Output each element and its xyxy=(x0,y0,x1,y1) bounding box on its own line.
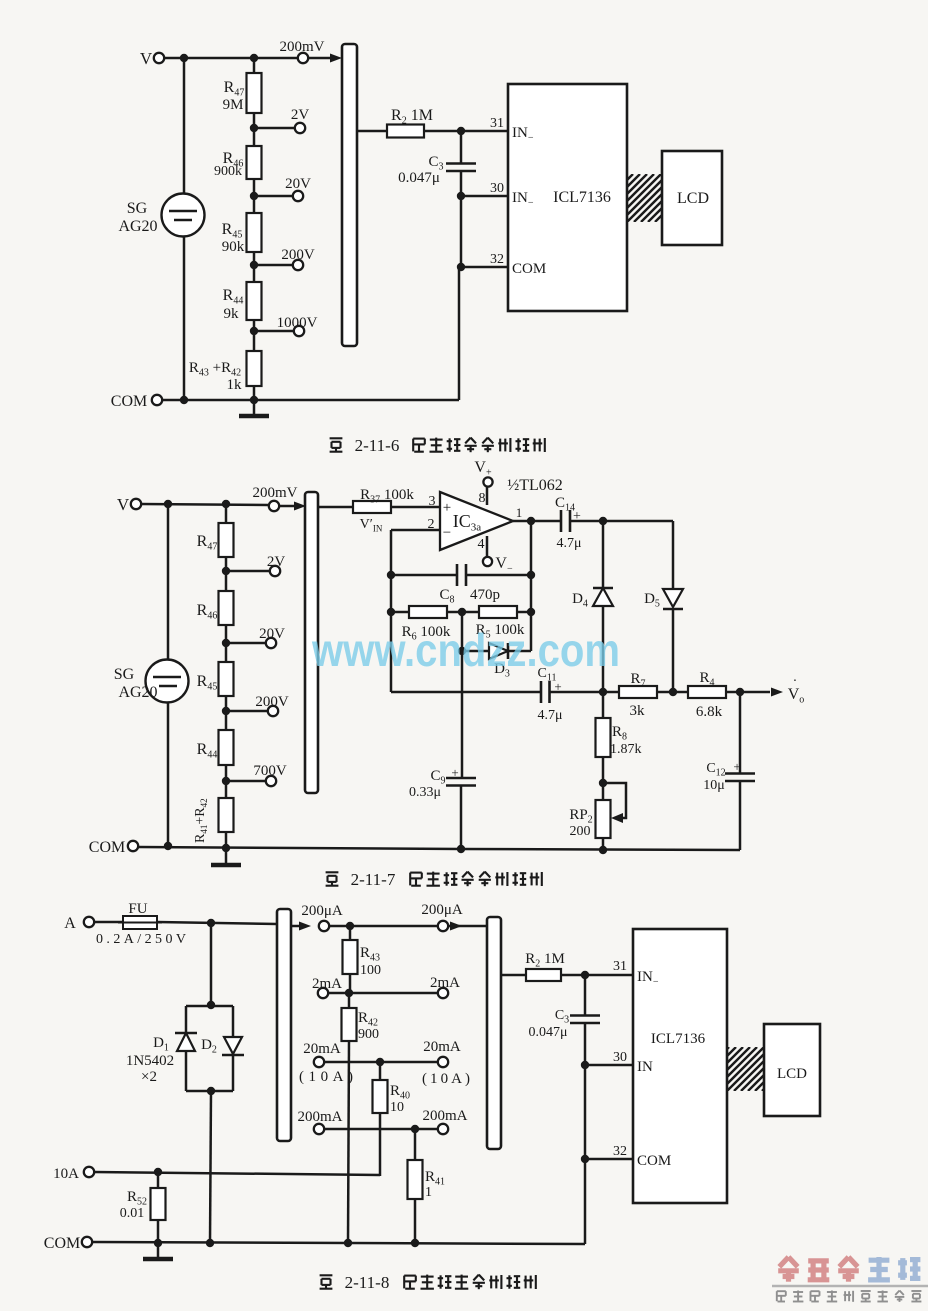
svg-text:8: 8 xyxy=(479,491,486,506)
wire 1000V tap xyxy=(254,330,294,333)
svg-text:+: + xyxy=(443,500,451,516)
junction D5 bottom xyxy=(669,688,677,696)
svg-text:90k: 90k xyxy=(222,239,245,255)
svg-text:200mA: 200mA xyxy=(423,1108,468,1124)
diode D4 branch xyxy=(602,521,605,588)
terminal 20V mid xyxy=(266,638,276,648)
junction RP2 bottom xyxy=(599,846,607,854)
ground middle circuit xyxy=(225,849,228,864)
terminal 20mA left xyxy=(314,1057,324,1067)
selector bar1 bottom circuit xyxy=(277,909,291,1141)
resistor R43 100 xyxy=(349,926,352,940)
svg-text:SG: SG xyxy=(127,200,148,217)
resistor R45 xyxy=(247,213,262,252)
terminal 2V mid xyxy=(270,566,280,576)
svg-text:2-11-7: 2-11-7 xyxy=(351,870,396,889)
lower rail to C11 xyxy=(391,691,541,694)
arrow Vo xyxy=(771,688,783,697)
junction R40 top xyxy=(376,1058,384,1066)
svg-text:+: + xyxy=(451,765,458,780)
junction R41 top xyxy=(411,1125,419,1133)
junction 200V tap xyxy=(250,261,258,269)
svg-text:R2 1M: R2 1M xyxy=(525,951,565,970)
svg-text:½TL062: ½TL062 xyxy=(507,477,563,494)
wire bar to R2 xyxy=(357,130,387,133)
svg-text:10A: 10A xyxy=(53,1166,79,1182)
arrow into selector xyxy=(330,54,342,63)
svg-text:LCD: LCD xyxy=(777,1066,807,1082)
wire COM rail bottom circuit xyxy=(92,1242,585,1244)
wire V to selector bar xyxy=(164,57,297,60)
wire V to bar middle xyxy=(141,504,269,505)
diode D3 branch xyxy=(461,612,464,651)
junction mid left rail xyxy=(164,500,172,508)
wire R2 to pin 31 xyxy=(424,130,508,133)
svg-text:200V: 200V xyxy=(281,247,315,263)
resistor R47 middle xyxy=(219,523,234,557)
svg-text:200V: 200V xyxy=(255,694,289,710)
wire R37 to op-amp pin3 xyxy=(391,506,440,509)
svg-text:AG20: AG20 xyxy=(118,684,157,701)
terminal 200mA right xyxy=(438,1124,448,1134)
wire right vertical output to D3 xyxy=(530,521,533,651)
junction pin 30 node xyxy=(457,192,465,200)
diode block bottom xyxy=(186,1090,233,1093)
junction top of divider chain xyxy=(250,54,258,62)
junction R8 top xyxy=(599,688,607,696)
svg-text:AG20: AG20 xyxy=(118,218,157,235)
svg-text:200: 200 xyxy=(570,824,591,839)
svg-text:1.87k: 1.87k xyxy=(610,742,642,757)
junction R42 bottom xyxy=(344,1239,352,1247)
junction diode branch bottom xyxy=(206,1239,214,1247)
LCD display bottom xyxy=(764,1024,820,1116)
terminal 20mA right xyxy=(438,1057,448,1067)
caption figure 2-11-6 xyxy=(330,437,343,439)
svg-text:0.047μ: 0.047μ xyxy=(398,170,440,186)
resistor R41+R42 middle xyxy=(219,798,234,832)
terminal 2mA left xyxy=(318,988,328,998)
junction output node xyxy=(527,517,535,525)
wire R2 to pin31 bottom xyxy=(561,974,633,977)
svg-text:IN: IN xyxy=(637,1059,653,1075)
svg-text:LCD: LCD xyxy=(677,190,709,207)
junction R2/C3 bottom xyxy=(581,971,589,979)
resistor R2 1M bottom xyxy=(526,969,561,981)
capacitor C12 10u xyxy=(739,692,742,774)
wire pin32 node to COM rail xyxy=(584,1159,587,1244)
junction 200V mid xyxy=(222,707,230,715)
wire divider chain xyxy=(253,58,256,400)
junction top-left rail xyxy=(180,54,188,62)
svg-text:2V: 2V xyxy=(291,107,310,123)
junction 700V mid xyxy=(222,777,230,785)
terminal 20V xyxy=(293,191,303,201)
IC U2 ICL7136 bottom xyxy=(633,929,727,1203)
svg-text:900: 900 xyxy=(358,1027,379,1042)
junction R8/RP2 wiper xyxy=(599,779,607,787)
svg-text:32: 32 xyxy=(613,1144,627,1159)
svg-text:1: 1 xyxy=(516,505,523,520)
svg-text:900k: 900k xyxy=(214,164,242,179)
svg-text:FU: FU xyxy=(128,901,147,917)
svg-text:3k: 3k xyxy=(630,703,646,719)
svg-text:2V: 2V xyxy=(267,554,286,570)
ground top circuit xyxy=(253,400,256,415)
svg-text:200mA: 200mA xyxy=(298,1109,343,1125)
junction pin 32 node xyxy=(457,263,465,271)
svg-text:20V: 20V xyxy=(259,626,285,642)
svg-text:200mV: 200mV xyxy=(253,485,298,501)
svg-text:10μ: 10μ xyxy=(703,778,725,793)
svg-text:9k: 9k xyxy=(224,306,240,322)
diode D5 branch xyxy=(672,521,675,589)
RP2 wiper arm xyxy=(603,783,626,818)
svg-text:·: · xyxy=(793,674,798,689)
wire C3 to pin30 node xyxy=(460,196,463,267)
svg-text:+: + xyxy=(554,679,561,694)
pin 8 stub and V+ terminal xyxy=(486,487,489,505)
resistor R40 10 xyxy=(379,1062,382,1080)
svg-text:A: A xyxy=(64,915,76,932)
junction C8 right xyxy=(527,571,535,579)
svg-text:COM: COM xyxy=(89,839,125,856)
junction D branch top xyxy=(207,919,215,927)
svg-text:30: 30 xyxy=(490,181,504,196)
junction pin32 node bottom xyxy=(581,1155,589,1163)
svg-text:2-11-8: 2-11-8 xyxy=(345,1273,390,1292)
diode D2 xyxy=(232,1006,235,1037)
junction COM mid-left xyxy=(164,842,172,850)
svg-text:COM: COM xyxy=(637,1153,671,1169)
wire 20mA row xyxy=(324,1061,438,1064)
svg-text:20mA: 20mA xyxy=(423,1039,461,1055)
capacitor C8 row xyxy=(391,574,457,577)
svg-text:1: 1 xyxy=(425,1185,432,1200)
resistor R52 0.01 xyxy=(157,1172,160,1188)
resistor R45 middle xyxy=(219,662,234,696)
capacitor C11 4.7u xyxy=(540,681,543,703)
terminal 200uA left xyxy=(319,921,329,931)
junction 20V tap xyxy=(250,192,258,200)
junction R2/C3 xyxy=(457,127,465,135)
svg-text:1000V: 1000V xyxy=(277,315,318,331)
junction chain bottom mid xyxy=(222,844,230,852)
wire bar to R37 xyxy=(318,506,353,509)
svg-text:9M: 9M xyxy=(223,97,244,113)
pot RP2 200 xyxy=(596,800,611,838)
junction pin30 node bottom xyxy=(581,1061,589,1069)
svg-text:100: 100 xyxy=(360,963,381,978)
svg-text:−: − xyxy=(443,525,451,541)
wire 2V mid xyxy=(226,570,270,573)
wire C3 down pin32 xyxy=(584,1065,587,1159)
wire left rail V to COM xyxy=(183,58,186,400)
wire fuse to bar1 xyxy=(157,922,277,924)
source SG AG20 xyxy=(162,194,205,237)
resistor R7 3k xyxy=(603,691,619,694)
source SG AG20 middle xyxy=(146,660,189,703)
svg-text:www.cndzz.com: www.cndzz.com xyxy=(311,624,620,676)
terminal 1000V xyxy=(294,326,304,336)
logo yiduotuo peixun red blue xyxy=(779,1257,788,1267)
svg-text:20mA: 20mA xyxy=(303,1041,341,1057)
op-amp IC3a triangle xyxy=(440,492,513,550)
terminal 200uA right xyxy=(438,921,448,931)
wire D3 node down to C9 xyxy=(461,651,464,778)
wire COM rail up to pin 32 xyxy=(458,267,461,400)
svg-text:0.047μ: 0.047μ xyxy=(528,1025,567,1040)
wire COM bottom rail middle xyxy=(138,847,461,849)
wire 200uA row xyxy=(329,925,438,928)
svg-text:6.8k: 6.8k xyxy=(696,704,723,720)
resistor R42 900 xyxy=(348,993,351,1008)
svg-text:20V: 20V xyxy=(285,176,311,192)
svg-text:1k: 1k xyxy=(227,377,243,393)
svg-text:4.7μ: 4.7μ xyxy=(537,708,562,723)
svg-text:200μA: 200μA xyxy=(421,902,463,918)
wire R6-R5 xyxy=(447,611,479,614)
svg-text:ICL7136: ICL7136 xyxy=(651,1031,706,1047)
arrow into bar middle xyxy=(294,502,306,511)
wire pin 30 xyxy=(461,195,508,198)
selector bar top circuit xyxy=(342,44,357,346)
svg-text:470p: 470p xyxy=(470,587,500,603)
junction D4 top xyxy=(599,517,607,525)
svg-text:ICL7136: ICL7136 xyxy=(553,189,611,206)
svg-text:31: 31 xyxy=(490,116,504,131)
wire 700V mid xyxy=(226,780,266,783)
caption figure 2-11-7 xyxy=(326,871,339,873)
junction C12 top xyxy=(736,688,744,696)
junction C9 bottom xyxy=(457,845,465,853)
junction 20V mid xyxy=(222,639,230,647)
wire 200V tap xyxy=(254,264,293,267)
resistor R2 1M xyxy=(387,125,424,138)
wire diode block to COM rail xyxy=(210,1091,211,1243)
wire pin32 bottom xyxy=(585,1158,633,1161)
svg-text:×2: ×2 xyxy=(141,1069,157,1085)
svg-text:200mV: 200mV xyxy=(280,39,325,55)
logo tagline gray xyxy=(776,1291,778,1301)
terminal 200V mid xyxy=(268,706,278,716)
svg-text:1N5402: 1N5402 xyxy=(126,1053,174,1069)
selector bar2 bottom circuit xyxy=(487,917,501,1149)
junction COM rail xyxy=(180,396,188,404)
resistor R44 xyxy=(247,282,262,320)
terminal 200V xyxy=(293,260,303,270)
resistor R4 6.8k xyxy=(673,691,688,694)
svg-text:R2 1M: R2 1M xyxy=(391,107,433,127)
wire COM bottom rail xyxy=(162,399,459,402)
svg-text:COM: COM xyxy=(44,1235,80,1252)
wire 2V tap xyxy=(254,127,295,130)
resistor R46 middle xyxy=(219,591,234,625)
caption figure 2-11-8 xyxy=(320,1274,333,1276)
junction R41 bottom xyxy=(411,1239,419,1247)
resistor R43+R42 xyxy=(247,351,262,386)
wire 10A row xyxy=(94,1172,380,1175)
diode D1 1N5402 xyxy=(185,1006,188,1033)
wire bar2 to R2 xyxy=(501,974,526,977)
fuse FU 0.2A/250V xyxy=(94,921,123,924)
terminal 2mA right xyxy=(438,988,448,998)
capacitor C3 0.047u xyxy=(460,131,463,163)
wire output top rail xyxy=(570,520,673,523)
resistor R8 1.87k xyxy=(602,692,605,718)
wire 20V mid xyxy=(226,642,266,645)
svg-text:V: V xyxy=(140,49,153,68)
capacitor C3 bottom xyxy=(584,975,587,1015)
junction R42 top xyxy=(345,989,353,997)
terminal 200mV xyxy=(298,53,308,63)
ground bottom circuit xyxy=(157,1243,160,1258)
svg-text:SG: SG xyxy=(114,666,135,683)
svg-text:0.33μ: 0.33μ xyxy=(409,785,441,800)
junction R5 right xyxy=(527,608,535,616)
resistor R44 middle xyxy=(219,730,234,765)
wire 20V tap xyxy=(254,195,293,198)
junction R6/R5 xyxy=(458,608,466,616)
junction 2V mid xyxy=(222,567,230,575)
resistor R46 xyxy=(247,146,262,179)
svg-text:+: + xyxy=(733,759,740,774)
svg-text:R37 100k: R37 100k xyxy=(360,487,414,506)
wire pin 32 xyxy=(461,266,508,269)
wire 200mA row xyxy=(324,1128,438,1131)
wire bar1 to 200uA xyxy=(291,925,300,928)
resistor R47 top xyxy=(247,73,262,113)
svg-text:4: 4 xyxy=(478,537,485,552)
junction R52 top xyxy=(154,1168,162,1176)
resistor R5 100k xyxy=(479,606,517,618)
svg-text:30: 30 xyxy=(613,1050,627,1065)
junction R52 bottom xyxy=(154,1239,162,1247)
junction divider bottom xyxy=(250,396,258,404)
junction R43 top xyxy=(346,922,354,930)
junction mid chain top xyxy=(222,500,230,508)
svg-text:700V: 700V xyxy=(253,763,287,779)
selector bar middle xyxy=(305,492,318,793)
svg-text:COM: COM xyxy=(512,261,546,277)
terminal 200mV middle xyxy=(269,501,279,511)
svg-text:0.01: 0.01 xyxy=(120,1206,145,1221)
svg-text:2mA: 2mA xyxy=(312,976,342,992)
pin 4 stub and V- terminal xyxy=(486,536,489,557)
wire 200V mid xyxy=(226,710,268,713)
svg-text:3: 3 xyxy=(429,494,436,509)
capacitor C9 0.33u xyxy=(446,777,476,780)
resistor R6 100k xyxy=(391,611,409,614)
svg-text:4.7μ: 4.7μ xyxy=(556,536,581,551)
wire down to diode block xyxy=(210,923,213,1006)
junction fb C8 left xyxy=(387,571,395,579)
LCD display top xyxy=(662,151,722,245)
svg-text:COM: COM xyxy=(111,393,147,410)
logo divider line xyxy=(772,1285,928,1288)
wire pin30 bottom xyxy=(585,1064,633,1067)
wire 2mA row xyxy=(328,992,438,995)
wire mid left rail xyxy=(167,504,170,846)
svg-text:32: 32 xyxy=(490,252,504,267)
terminal 200mA left xyxy=(314,1124,324,1134)
terminal 700V mid xyxy=(266,776,276,786)
svg-text:31: 31 xyxy=(613,959,627,974)
terminal 2V xyxy=(295,123,305,133)
resistor R37 100k xyxy=(353,501,391,513)
svg-text:V: V xyxy=(117,495,130,514)
svg-text:2-11-6: 2-11-6 xyxy=(355,436,400,455)
wire pin2 feedback xyxy=(391,529,440,532)
diode block top xyxy=(207,1001,215,1009)
arrow into bar2 xyxy=(448,925,487,928)
svg-text:10: 10 xyxy=(390,1100,404,1115)
junction 2V tap xyxy=(250,124,258,132)
junction R6 left xyxy=(387,608,395,616)
IC U1 ICL7136 top xyxy=(508,84,627,311)
svg-text:2mA: 2mA xyxy=(430,975,460,991)
wire mid divider chain xyxy=(225,504,228,848)
pin 1 output wire xyxy=(513,520,561,523)
resistor R41 1 xyxy=(414,1129,417,1160)
svg-text:200μA: 200μA xyxy=(301,903,343,919)
junction 1000V tap xyxy=(250,327,258,335)
capacitor C14 4.7u xyxy=(560,510,563,532)
